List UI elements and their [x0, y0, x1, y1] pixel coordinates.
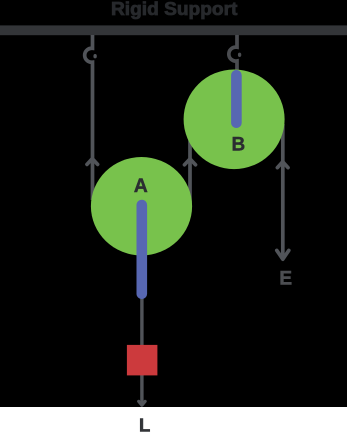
- arrowhead down at effort end: [277, 250, 289, 259]
- svg-text:Rigid Support: Rigid Support: [111, 0, 237, 19]
- pulley A (green disc): [91, 157, 192, 255]
- load weight (red square): [127, 345, 157, 376]
- arrowhead up on middle rope: [185, 159, 196, 165]
- svg-text:L: L: [139, 415, 150, 432]
- wire: load cord from pulley A axle down to load: [140, 296, 143, 404]
- arrowhead up on right rope: [277, 162, 288, 168]
- svg-text:E: E: [279, 268, 292, 289]
- hook tip nub (left hook): [93, 54, 96, 58]
- white footer strip: [0, 407, 347, 432]
- wire: hanger from bar with hook curl to pulley B axle: [229, 35, 237, 76]
- pulley B (green disc): [184, 70, 285, 170]
- rigid support bar: [0, 25, 347, 35]
- arrowhead up on left rope: [87, 159, 98, 165]
- wire: middle rope between pulley A and pulley B: [188, 128, 192, 206]
- svg-text:A: A: [134, 175, 148, 197]
- axle rod of pulley B (blue): [231, 75, 242, 122]
- wire: left rope from bar with hook curl down to pulley A: [85, 35, 93, 200]
- hook tip nub (right hook): [238, 53, 241, 57]
- wire: right rope from pulley B down to effort: [281, 124, 285, 259]
- svg-text:B: B: [232, 134, 246, 155]
- axle rod of pulley A (blue): [137, 205, 148, 294]
- arrowhead down at load end: [139, 401, 145, 405]
